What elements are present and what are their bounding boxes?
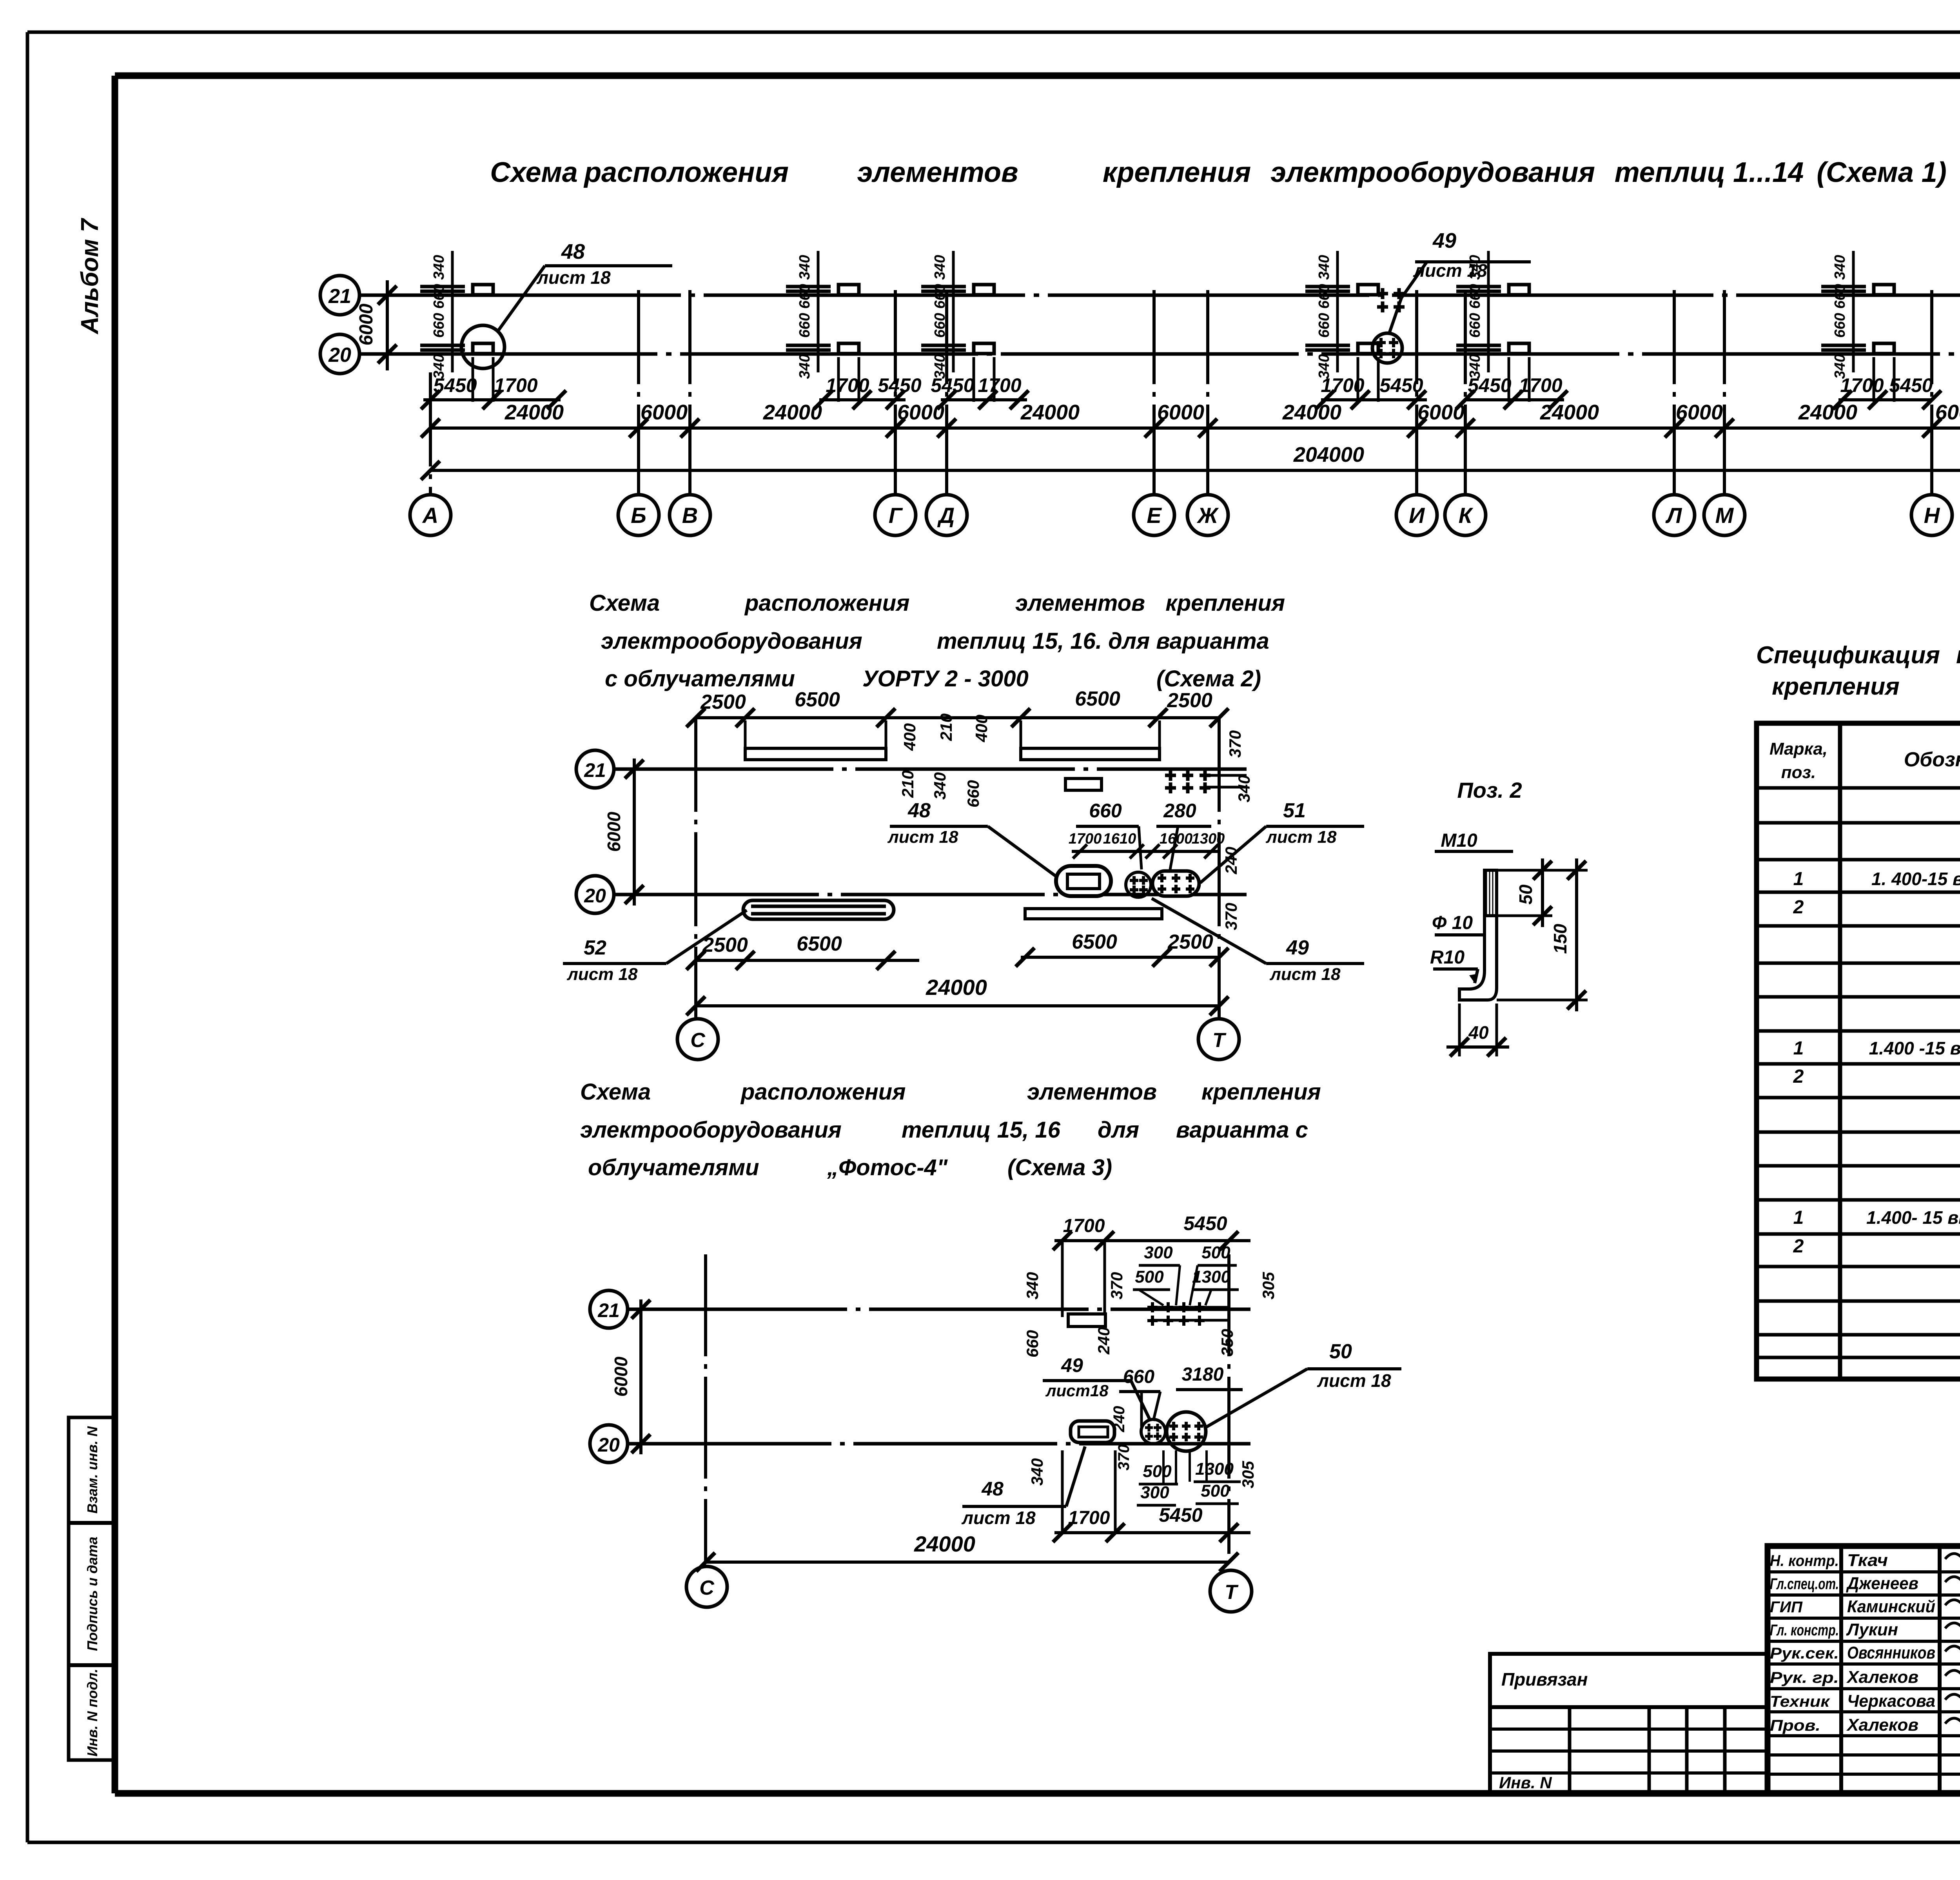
svg-text:Альбом 7: Альбом 7 [76,218,103,335]
embedded part group at x=2165 line 21 [786,285,859,295]
svg-text:51: 51 [1283,799,1306,822]
svg-text:6500: 6500 [1075,688,1120,710]
svg-text:1.400 -15 вып.1. 110- 02: 1.400 -15 вып.1. 110- 02 [1869,1038,1960,1058]
svg-text:24000: 24000 [1540,401,1599,424]
embedded part group at x=2510 line 20 [921,343,994,402]
svg-text:2500: 2500 [1167,689,1212,712]
embedded part group at x=4806 line 20 [1821,343,1894,402]
svg-text:Рук.сек.: Рук.сек. [1770,1645,1839,1662]
svg-text:2500: 2500 [700,691,746,713]
svg-text:Н: Н [1924,503,1940,528]
offset labels 340/660 at x=2510 [932,251,953,379]
scheme 2 center dim 660/280 [1076,800,1211,869]
svg-text:лист 18: лист 18 [961,1508,1036,1528]
svg-text:20: 20 [597,1434,620,1456]
svg-text:крепления: крепления [1772,673,1900,700]
column circles A..R [410,495,1960,535]
scheme 3 spacing 6000 [611,1299,650,1454]
pos.2 label F10 [1432,913,1486,935]
scheme 2 title [589,590,1285,691]
svg-text:элементов: элементов [857,157,1018,188]
embedded part group at x=3875 line 20 [1456,343,1529,402]
embedded part group at x=3875 line 21 [1456,285,1529,295]
svg-text:240: 240 [1222,847,1240,875]
svg-text:24000: 24000 [1282,401,1341,424]
svg-text:24000: 24000 [926,975,987,1000]
embedded part group at x=2165 line 20 [786,343,859,402]
scheme 3 rotated offsets below axis 21 [1023,1327,1236,1357]
svg-text:340: 340 [932,255,948,279]
svg-text:Т: Т [1225,1581,1239,1604]
scheme 2 oval embedded item on axis 20 [1056,866,1111,896]
svg-text:Гл.спец.от.: Гл.спец.от. [1770,1575,1839,1593]
svg-text:204000: 204000 [1293,443,1364,466]
svg-text:6000: 6000 [641,401,688,424]
svg-text:Л: Л [1665,503,1682,528]
svg-text:20: 20 [328,344,351,367]
pos.2 detail title [1457,778,1522,802]
svg-text:Халеков: Халеков [1846,1715,1918,1735]
scheme 3 dim 660/3180 [1119,1364,1243,1427]
svg-text:305: 305 [1259,1272,1278,1299]
svg-text:660: 660 [1316,284,1332,308]
svg-text:210: 210 [937,713,955,741]
svg-text:660: 660 [1123,1366,1154,1387]
svg-text:2500: 2500 [1167,931,1213,953]
svg-text:электрооборудования: электрооборудования [1270,157,1595,188]
svg-text:6000: 6000 [1417,401,1465,424]
svg-text:1: 1 [1793,1207,1804,1228]
scheme 2 column axis T [1218,718,1221,1019]
scheme 2 dim chain 1700/1610/1600/1300 [1069,831,1225,858]
svg-text:340: 340 [932,354,948,379]
svg-text:крепления: крепления [1103,157,1251,188]
scheme 2 spacing 6000 [604,759,644,906]
scheme 2 row axis 20 [576,876,1247,913]
scheme 2 bottom bar on axis 20 right [1025,909,1162,919]
title block frame [1768,1546,1960,1793]
scheme 3 anchor circle small [1141,1419,1165,1444]
svg-text:1700: 1700 [494,374,537,396]
svg-text:340: 340 [1028,1458,1046,1486]
scheme 3 callout 48 [961,1446,1085,1528]
specification title [1756,642,1960,700]
svg-text:500: 500 [1143,1462,1172,1481]
scheme 3 lower dims 500/1300/300/500 [1137,1450,1241,1505]
svg-text:660: 660 [932,313,948,338]
scheme 2 plus clusters on axis 21 [1165,770,1247,793]
scheme 2 rotated offsets near center top [898,713,991,808]
svg-text:48: 48 [561,240,585,263]
svg-text:Д: Д [937,503,955,528]
detail circle callout 48 on line 20 [461,240,672,368]
svg-text:6000: 6000 [1935,401,1960,424]
svg-text:расположения: расположения [740,1079,906,1105]
svg-text:340: 340 [1316,255,1332,279]
scheme 2 bottom-right dim 6500/2500 [1016,931,1229,967]
pos.2 dim 40 [1446,1004,1509,1056]
scheme 3 rotated offsets above axis 21 [1023,1272,1278,1299]
svg-text:Т: Т [1212,1029,1227,1052]
svg-text:Подпись и дата: Подпись и дата [84,1537,100,1651]
scheme 2 column circle T [1198,1006,1239,1060]
svg-text:лист 18: лист 18 [566,965,638,984]
svg-text:660: 660 [1089,800,1122,822]
bay detail dimensions 5450/1700 [421,374,1960,409]
scheme 2 bottom-left dim 2500/6500 [686,933,919,970]
svg-text:электрооборудования: электрооборудования [580,1117,842,1143]
svg-text:660: 660 [964,780,982,808]
svg-text:1700: 1700 [1519,374,1562,396]
svg-text:Н. контр.: Н. контр. [1770,1552,1839,1570]
scheme 3 top dim 1700/5450 [1053,1212,1250,1317]
svg-text:Г: Г [889,503,903,528]
svg-text:370: 370 [1115,1444,1132,1471]
svg-text:300: 300 [1144,1243,1173,1262]
svg-text:21: 21 [584,759,606,781]
svg-text:1. 400-15 вып.1. 110-02: 1. 400-15 вып.1. 110-02 [1871,869,1960,889]
svg-text:24000: 24000 [1798,401,1857,424]
svg-text:20: 20 [584,885,606,907]
svg-text:С: С [699,1577,715,1599]
svg-text:М10: М10 [1441,830,1477,851]
svg-text:660: 660 [431,313,447,338]
svg-text:крепления: крепления [1165,590,1285,616]
svg-text:крепления: крепления [1201,1079,1321,1105]
svg-text:1700: 1700 [1063,1216,1105,1236]
svg-text:340: 340 [931,772,949,800]
scheme 3 plus marks on axis 21 [1147,1302,1229,1326]
embedded part group at x=3490 line 21 [1305,285,1405,312]
scheme 2 overall dim 24000 [686,975,1229,1015]
svg-text:340: 340 [431,255,447,279]
svg-text:660: 660 [1023,1330,1042,1357]
svg-text:ГИП: ГИП [1770,1599,1803,1616]
svg-text:лист 18: лист 18 [536,267,611,288]
svg-text:Б: Б [631,503,646,528]
svg-text:Техник: Техник [1770,1693,1830,1710]
svg-text:Халеков: Халеков [1846,1668,1918,1687]
spec rows schema 1 [1793,794,1960,957]
svg-text:Рук. гр.: Рук. гр. [1770,1669,1839,1686]
svg-text:500: 500 [1201,1243,1230,1262]
scheme 2 irradiator bar top-left [745,720,886,760]
svg-text:6500: 6500 [797,933,842,955]
svg-text:Марка,: Марка, [1769,739,1828,759]
svg-text:Инв. N подл.: Инв. N подл. [84,1669,100,1757]
svg-text:340: 340 [797,255,813,279]
svg-text:6500: 6500 [795,688,840,711]
svg-text:49: 49 [1286,936,1309,959]
svg-text:5450: 5450 [1889,374,1933,396]
svg-text:облучателями: облучателями [588,1155,759,1180]
svg-text:Ткач: Ткач [1847,1551,1888,1570]
column axis lines [430,290,1960,495]
svg-text:6000: 6000 [356,303,377,345]
pos.2 label R10 [1430,947,1478,983]
linked stamp box [1490,1654,1768,1793]
scheme 2 anchor circle item [1126,872,1151,897]
svg-text:Пров.: Пров. [1770,1717,1820,1734]
svg-text:теплиц 15, 16. для варианта: теплиц 15, 16. для варианта [937,628,1269,654]
svg-text:240: 240 [1094,1327,1113,1355]
svg-text:24000: 24000 [1020,401,1080,424]
svg-text:52: 52 [584,936,606,959]
svg-text:1700: 1700 [1069,831,1102,847]
embedded part group at x=1232 line 21 [420,285,493,295]
detail circle callout 49 on line 20 scheme1 [1372,229,1531,363]
svg-text:1.400- 15 вып. 1. 110- 02: 1.400- 15 вып. 1. 110- 02 [1866,1207,1960,1228]
svg-text:лист 18: лист 18 [1317,1370,1391,1391]
scheme 3 anchor circle large [1167,1412,1206,1451]
svg-text:лист 18: лист 18 [1265,827,1337,847]
svg-text:(Схема 3): (Схема 3) [1007,1155,1112,1180]
svg-text:Ж: Ж [1196,503,1219,528]
scheme 3 column axis C line [704,1254,707,1562]
svg-text:340: 340 [1235,775,1253,802]
scheme 2 column axis C [694,718,697,1019]
svg-text:40: 40 [1468,1022,1489,1043]
svg-text:к: к [1956,642,1960,669]
svg-text:500: 500 [1135,1267,1164,1287]
svg-text:варианта с: варианта с [1176,1117,1308,1143]
svg-text:теплиц 1...14: теплиц 1...14 [1615,157,1804,188]
svg-text:3180: 3180 [1182,1364,1224,1385]
svg-text:660: 660 [1467,284,1483,308]
svg-text:5450: 5450 [1183,1212,1227,1234]
scheme 3 callout 49 [1043,1354,1151,1421]
offset labels 340/660 at x=2165 [797,251,818,379]
svg-text:Каминский: Каминский [1847,1597,1935,1616]
svg-text:2: 2 [1793,1066,1804,1087]
svg-text:Привязан: Привязан [1501,1669,1588,1689]
svg-text:660: 660 [1467,313,1483,338]
svg-text:48: 48 [907,799,931,822]
svg-text:Е: Е [1147,503,1162,528]
svg-text:6500: 6500 [1072,931,1117,953]
svg-text:Черкасова: Черкасова [1847,1691,1935,1711]
svg-text:R10: R10 [1430,947,1465,968]
embedded part group at x=1232 line 20 [420,343,493,402]
svg-text:305: 305 [1239,1461,1257,1488]
svg-text:Взам. инв. N: Взам. инв. N [84,1426,100,1514]
scheme 3 row axis 20 [590,1425,1250,1463]
scheme 3 bottom dim 1700/5450 [1053,1450,1250,1542]
svg-text:24000: 24000 [914,1532,975,1556]
svg-text:1600: 1600 [1160,831,1193,847]
scheme 2 callout 52 [563,910,747,984]
scheme 2 irradiator bar top-right [1021,720,1160,760]
svg-text:Ф 10: Ф 10 [1432,913,1473,933]
svg-text:(Схема 1): (Схема 1) [1817,157,1947,188]
svg-text:6000: 6000 [604,811,624,852]
svg-text:660: 660 [797,284,813,308]
scheme 2 embedded rect on axis 21 [1065,778,1102,790]
svg-text:1300: 1300 [1195,1459,1234,1479]
offset labels 340/660 at x=3490 [1316,251,1338,379]
svg-text:С: С [690,1029,706,1052]
scheme 3 column circle T [1210,1570,1252,1612]
pos.2 dim 50 [1497,858,1588,927]
svg-text:24000: 24000 [763,401,822,424]
svg-text:340: 340 [1023,1272,1042,1299]
embedded part group at x=4806 line 21 [1821,285,1894,295]
specification table headers [1769,739,1960,782]
svg-text:660: 660 [431,284,447,308]
total dimension 204000 [421,443,1960,480]
svg-text:лист 18: лист 18 [1269,965,1341,984]
svg-text:210: 210 [898,770,917,798]
svg-text:1: 1 [1793,1038,1804,1059]
svg-text:660: 660 [1832,284,1848,308]
scheme 2 top dimension 2500/6500 [686,688,1229,727]
svg-text:49: 49 [1432,229,1456,252]
svg-text:Схема: Схема [589,590,660,616]
scheme 2 right rotated offsets [1226,730,1253,802]
svg-text:50: 50 [1515,884,1536,905]
pos.2 dim 150 [1497,858,1588,1011]
svg-text:2: 2 [1793,897,1804,918]
scheme 2 callout 49 [1152,898,1364,984]
svg-text:1300: 1300 [1192,831,1225,847]
svg-text:340: 340 [1832,354,1848,379]
scheme 3 rotated label 305 below [1028,1458,1257,1488]
svg-text:2500: 2500 [702,934,748,956]
svg-text:элементов: элементов [1015,590,1145,616]
svg-text:Спецификация: Спецификация [1756,642,1940,669]
scheme 3 title [580,1079,1321,1180]
row axis 20 line [359,352,1960,356]
svg-text:370: 370 [1226,730,1244,758]
svg-text:поз.: поз. [1781,763,1816,782]
scheme 2 row axis 21 [576,750,1247,788]
title block signature grid [1768,1546,1960,1793]
offset labels 340/660 at x=1232 [431,251,452,379]
left margin stamp strip [69,1417,115,1760]
svg-text:340: 340 [1832,255,1848,279]
offset labels 340/660 at x=4806 [1832,251,1853,379]
svg-text:М: М [1715,503,1734,528]
svg-text:48: 48 [981,1478,1004,1500]
svg-text:2: 2 [1793,1236,1804,1257]
scheme 1 title [490,157,1947,188]
svg-text:5450: 5450 [878,374,921,396]
row spacing dimension 6000 [356,280,397,370]
svg-text:Обозначение: Обозначение [1904,748,1960,771]
scheme 3 rotated label 240 near bar [1111,1406,1132,1471]
svg-text:Схема: Схема [580,1079,651,1105]
scheme 3 column circle C [686,1566,727,1607]
scheme 2 rotated labels right 240/370 [1222,847,1240,930]
svg-text:660: 660 [797,313,813,338]
svg-text:21: 21 [328,285,351,308]
svg-text:Инв. N: Инв. N [1499,1773,1552,1792]
svg-text:400: 400 [900,723,919,751]
svg-text:150: 150 [1550,924,1570,954]
svg-text:300: 300 [1140,1483,1169,1502]
svg-text:350: 350 [1218,1329,1236,1356]
scheme 2 rounded anchor plate item [1152,871,1199,896]
svg-text:340: 340 [797,354,813,379]
scheme 3 callout 50 [1207,1340,1401,1427]
spec rows schema 3 [1793,1138,1960,1296]
row axis circle 20 [320,334,359,374]
scheme 2 column circle C [677,1006,718,1060]
pos.2 anchor bolt drawing [1435,830,1513,1000]
svg-text:1300: 1300 [1192,1267,1230,1287]
svg-text:340: 340 [431,354,447,379]
scheme 3 overall dim 24000 [696,1532,1238,1572]
svg-text:В: В [682,503,698,528]
svg-text:370: 370 [1222,903,1240,930]
scheme 2 callout 51 [1200,799,1364,883]
svg-text:400: 400 [972,715,991,742]
svg-text:5450: 5450 [1379,374,1423,396]
svg-text:1700: 1700 [1068,1508,1110,1528]
svg-text:элементов: элементов [1027,1079,1157,1105]
bay dimension line 24000/6000 [421,401,1960,437]
spec rows schema 2 [1793,970,1960,1126]
svg-text:лист 18: лист 18 [887,827,958,847]
svg-text:с облучателями: с облучателями [605,666,795,691]
svg-text:21: 21 [597,1299,620,1321]
svg-text:Гл. констр.: Гл. констр. [1770,1622,1839,1639]
svg-text:Дженеев: Дженеев [1846,1574,1918,1593]
specification table grid [1757,723,1960,1379]
svg-text:теплиц 15, 16: теплиц 15, 16 [902,1117,1061,1143]
svg-text:340: 340 [1316,354,1332,379]
svg-text:(Схема 2): (Схема 2) [1156,666,1261,691]
svg-text:расположения: расположения [744,590,909,616]
svg-text:УОРТУ 2 - 3000: УОРТУ 2 - 3000 [862,666,1029,691]
svg-text:Лукин: Лукин [1846,1620,1898,1639]
svg-text:Схема: Схема [490,157,578,188]
svg-text:1700: 1700 [826,374,869,396]
scheme 3 upper small dims 300/500/500/1300 [1133,1243,1239,1305]
svg-text:1: 1 [1793,869,1804,889]
svg-text:6000: 6000 [611,1356,631,1397]
svg-text:для: для [1098,1117,1139,1143]
svg-text:500: 500 [1201,1481,1230,1501]
svg-text:6000: 6000 [897,401,944,424]
scheme 3 embedded bar below axis 21 [1068,1314,1105,1327]
svg-text:А: А [422,503,438,528]
svg-text:280: 280 [1163,800,1196,822]
title block signature roles and names [1770,1550,1960,1735]
svg-text:расположения: расположения [583,157,789,188]
svg-text:240: 240 [1111,1406,1128,1433]
scheme 3 row axis 21 [590,1290,1250,1328]
svg-text:Поз. 2: Поз. 2 [1457,778,1522,802]
album label [76,218,103,335]
row axis circle 21 [320,276,359,315]
svg-text:660: 660 [932,284,948,308]
svg-text:И: И [1409,503,1425,528]
scheme 2 callout 48 [887,799,1058,878]
svg-text:660: 660 [1316,313,1332,338]
svg-text:660: 660 [1832,313,1848,338]
svg-text:6000: 6000 [1676,401,1723,424]
svg-text:340: 340 [1467,354,1483,379]
svg-text:электрооборудования: электрооборудования [601,628,862,654]
scheme 3 column axis T line [1227,1254,1230,1554]
row axis 21 line [359,294,1960,297]
svg-text:К: К [1459,503,1474,528]
svg-text:„Фотос-4": „Фотос-4" [827,1155,948,1180]
scheme 2 rounded bar on axis 20 left [743,900,894,919]
svg-text:6000: 6000 [1157,401,1204,424]
svg-text:1610: 1610 [1103,831,1136,847]
